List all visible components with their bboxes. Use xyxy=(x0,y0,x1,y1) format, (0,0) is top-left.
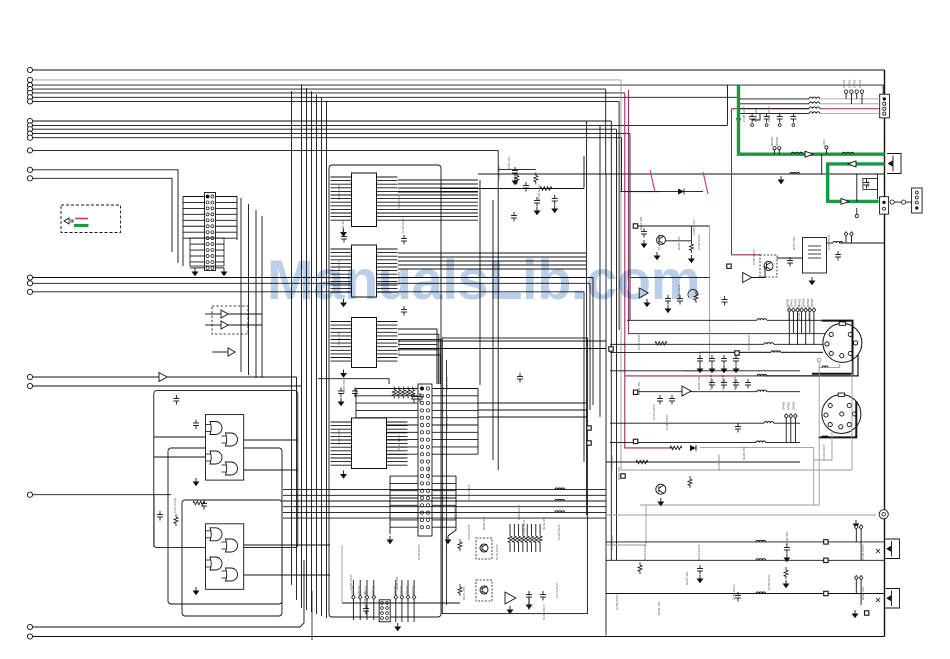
svg-text:C126 0.047: C126 0.047 xyxy=(397,434,401,450)
transistor Q4 xyxy=(480,586,488,594)
wire xyxy=(856,174,858,201)
square xyxy=(824,558,828,562)
green arrow 4 xyxy=(841,198,849,204)
capacitor C81 xyxy=(735,592,741,602)
connector CN1 xyxy=(205,193,216,271)
wire xyxy=(637,225,710,227)
res R11 xyxy=(694,291,698,303)
gray tail CN7 xyxy=(819,364,840,367)
svg-text:R227 47K: R227 47K xyxy=(445,377,449,390)
pin header J8 xyxy=(784,414,788,418)
svg-text:L004: L004 xyxy=(822,139,826,146)
op-IC IC3 xyxy=(352,318,377,368)
IC block outer box xyxy=(329,165,441,617)
svg-text:R248 47K: R248 47K xyxy=(742,447,746,460)
DIN connector CN7 xyxy=(823,323,862,362)
squares right box xyxy=(633,390,637,394)
svg-text:C104 0.047: C104 0.047 xyxy=(537,184,541,200)
wire xyxy=(33,277,593,279)
svg-text:C168 0.047: C168 0.047 xyxy=(349,574,353,590)
capacitor C30 xyxy=(173,395,179,405)
svg-text:R263 47K: R263 47K xyxy=(807,307,811,320)
dashed box U11 xyxy=(212,306,248,334)
gate G1 xyxy=(210,422,222,435)
thick route CN8 xyxy=(819,401,857,437)
gate G3 xyxy=(210,451,222,464)
bead circles xyxy=(890,200,894,204)
resistor R10 xyxy=(689,241,693,253)
wire xyxy=(244,544,330,546)
capacitor xyxy=(697,355,703,365)
wire xyxy=(882,85,884,94)
wire xyxy=(33,88,606,90)
green arrow 2 xyxy=(805,151,813,157)
wire xyxy=(154,436,205,438)
wire xyxy=(33,96,738,98)
input terminal T4 xyxy=(27,87,32,92)
wire xyxy=(827,242,833,244)
CN3 purple row segment xyxy=(820,108,880,110)
svg-text:R239 47K: R239 47K xyxy=(697,377,701,390)
vertical bus left-centre xyxy=(296,377,298,600)
capacitor xyxy=(721,379,727,389)
input terminal T21 xyxy=(27,492,32,497)
connector CN4 xyxy=(880,197,889,214)
capacitor C31 xyxy=(193,420,199,430)
green trace branch jack2 xyxy=(828,164,885,202)
wire xyxy=(33,79,621,81)
wire xyxy=(610,370,684,372)
svg-text:C170 0.047: C170 0.047 xyxy=(417,544,421,560)
CN2 pin stub wires xyxy=(356,388,418,390)
resistor R70 xyxy=(655,342,667,346)
gray wire vertical xyxy=(620,80,622,470)
ground C82 xyxy=(697,575,702,583)
wire xyxy=(606,559,885,561)
square Q1 base xyxy=(633,224,637,228)
switch S2 lever xyxy=(703,172,708,194)
resistor R72 xyxy=(636,460,648,464)
connector CN5 xyxy=(912,188,923,213)
input terminal T2 xyxy=(27,77,32,82)
svg-text:C171 0.047: C171 0.047 xyxy=(427,464,431,480)
legend box xyxy=(61,205,121,233)
diamond pair 1 xyxy=(855,525,859,529)
wire purple bus B xyxy=(629,90,831,334)
wire xyxy=(583,156,585,189)
wire xyxy=(205,313,221,315)
svg-text:R236 47K: R236 47K xyxy=(637,382,641,395)
svg-text:DPM6: DPM6 xyxy=(810,298,814,307)
inductor xyxy=(757,390,767,392)
capacitor C26 xyxy=(338,388,344,398)
pin header J9 xyxy=(844,232,848,236)
CN3 row wires xyxy=(740,98,809,100)
wire xyxy=(33,149,499,151)
CN1 lower box xyxy=(190,238,224,266)
wire xyxy=(33,560,304,627)
svg-text:C164 0.047: C164 0.047 xyxy=(822,444,826,460)
centre block box xyxy=(442,338,587,614)
wire xyxy=(244,439,298,441)
svg-text:DPM0: DPM0 xyxy=(782,401,786,410)
ground U5 xyxy=(507,606,512,614)
resistor coil CN8 tail xyxy=(822,436,828,437)
CN1 right rail xyxy=(236,197,238,241)
gray wire J5 xyxy=(341,545,343,603)
wire purple branch top xyxy=(625,191,660,193)
input terminal T19 xyxy=(27,374,32,379)
capacitor xyxy=(745,379,751,389)
wire bus xyxy=(316,95,318,615)
IC2 pin wires xyxy=(331,248,352,250)
ground arrow CN2-b xyxy=(445,536,450,544)
input terminal T1 xyxy=(27,67,32,72)
resistor R30 xyxy=(174,514,178,526)
op-amp U5 xyxy=(505,592,516,604)
wire xyxy=(492,200,494,460)
wire bundle CN2-east xyxy=(478,402,587,404)
gray output wire xyxy=(606,514,876,516)
svg-text:C123 0.047: C123 0.047 xyxy=(397,194,401,210)
wire xyxy=(766,442,800,444)
transformer T1 box xyxy=(803,238,827,274)
gate G8 xyxy=(226,568,238,581)
wire xyxy=(876,174,878,199)
op-IC IC1 xyxy=(352,173,377,227)
svg-text:R221 47K: R221 47K xyxy=(337,332,341,345)
buffer U11b xyxy=(221,321,228,329)
square J4b xyxy=(865,611,869,615)
svg-text:C134 0.047: C134 0.047 xyxy=(557,524,561,540)
resistor R81 xyxy=(784,567,788,579)
resistor R21 xyxy=(515,172,519,184)
ground C53 xyxy=(792,124,795,127)
gray wire 4 xyxy=(700,448,814,505)
ground C26 xyxy=(338,398,343,406)
capacitor C33 xyxy=(201,500,207,510)
diode D1 xyxy=(678,189,684,195)
wire xyxy=(228,324,262,326)
wire xyxy=(781,351,823,353)
svg-text:R251 47K: R251 47K xyxy=(685,572,689,585)
capacitor cluster mid xyxy=(512,167,518,177)
squares centre box edge xyxy=(587,426,591,430)
svg-text:C PA1: C PA1 xyxy=(853,79,857,88)
x mark J3 xyxy=(876,549,880,553)
svg-text:R215 47K: R215 47K xyxy=(617,467,621,480)
transistor Q1 xyxy=(657,236,666,245)
capacitor C62 xyxy=(665,295,671,305)
svg-text:C132 0.047: C132 0.047 xyxy=(522,519,526,535)
wire xyxy=(398,340,606,342)
gray wire 3 xyxy=(640,358,819,505)
input terminal T12 xyxy=(27,135,32,140)
gates region outer box xyxy=(154,391,298,548)
ground C28 xyxy=(552,205,557,213)
wire xyxy=(33,69,885,71)
legend cursor arrow xyxy=(64,218,73,224)
wire xyxy=(228,313,262,315)
CN1 left rail xyxy=(182,197,184,267)
wire xyxy=(448,476,456,536)
svg-text:DP201: DP201 xyxy=(399,585,403,595)
svg-text:R230 47K: R230 47K xyxy=(482,517,486,530)
wire bundle IC1-east xyxy=(398,179,478,181)
transistor Q2 xyxy=(656,484,666,494)
gray circle tail xyxy=(817,358,821,362)
svg-text:R212 47K: R212 47K xyxy=(453,507,457,520)
wire bundle IC2-east xyxy=(398,252,586,254)
gate cluster 1 box xyxy=(206,415,244,481)
IC2 ground xyxy=(341,299,346,307)
inductor L40 xyxy=(555,488,565,490)
inductor L42 xyxy=(555,499,565,501)
ground arrow CN1-a xyxy=(192,268,197,276)
inductor xyxy=(764,343,774,345)
wire xyxy=(342,602,460,604)
thick route CN7 xyxy=(812,321,853,374)
ground xyxy=(697,365,702,373)
ground Q1 xyxy=(654,252,659,260)
gate G6 xyxy=(226,539,238,552)
capacitor xyxy=(709,355,715,365)
input terminal T10 xyxy=(27,127,32,132)
inner block border left xyxy=(605,174,607,636)
svg-text:R269 47K: R269 47K xyxy=(395,577,399,590)
bottom bus wire xyxy=(33,636,885,638)
wire xyxy=(610,422,764,424)
inductor xyxy=(764,422,774,424)
ground xyxy=(733,365,738,373)
square U6 fb xyxy=(727,264,731,268)
input terminal T16 xyxy=(27,275,32,280)
x mark J4 xyxy=(876,598,880,602)
wire bus xyxy=(586,121,588,515)
resistor R12 xyxy=(688,476,692,488)
input terminal T3 xyxy=(27,83,32,88)
pin header J5 xyxy=(352,595,356,599)
capacitor C21 xyxy=(341,233,347,243)
svg-text:C138 0.047: C138 0.047 xyxy=(665,414,669,430)
resistor R coil xyxy=(790,172,800,174)
wire bus xyxy=(301,85,303,608)
svg-text:DP002: DP002 xyxy=(775,136,779,146)
IC4 ground xyxy=(341,471,346,479)
green trace main xyxy=(739,85,885,154)
svg-text:DP203: DP203 xyxy=(411,585,415,595)
gate G5 xyxy=(210,528,222,541)
svg-text:C122 0.047: C122 0.047 xyxy=(337,429,341,445)
svg-text:C140 0.047: C140 0.047 xyxy=(709,374,713,390)
resistor R23 xyxy=(540,187,552,191)
wire xyxy=(767,319,823,321)
op-amp U6 xyxy=(743,273,752,283)
wire xyxy=(244,469,298,471)
IC1 pin wires xyxy=(331,176,352,178)
inductor xyxy=(757,319,767,321)
wire xyxy=(610,351,771,353)
ground J6 xyxy=(395,623,400,631)
ground U7 xyxy=(644,299,649,307)
ground row xyxy=(778,176,783,184)
svg-text:R203 47K: R203 47K xyxy=(507,157,511,170)
svg-text:C101 0.047: C101 0.047 xyxy=(401,217,405,233)
ground C40 xyxy=(526,601,531,609)
legend red sample xyxy=(75,218,88,220)
wire xyxy=(634,391,757,393)
wire xyxy=(33,124,728,126)
wire xyxy=(684,370,800,372)
wire xyxy=(767,391,800,393)
svg-text:C173 0.047: C173 0.047 xyxy=(527,594,531,610)
wire xyxy=(33,84,884,86)
wire xyxy=(610,343,764,345)
svg-text:C141 0.047: C141 0.047 xyxy=(721,374,725,390)
ground arrow CN1-b xyxy=(221,268,226,276)
svg-text:C116 0.047: C116 0.047 xyxy=(697,544,701,560)
inductor xyxy=(756,441,766,443)
CN2 left rail xyxy=(355,389,357,455)
wire purple drop xyxy=(732,109,761,255)
svg-text:DPM1: DPM1 xyxy=(787,401,791,410)
svg-text:C153 0.047: C153 0.047 xyxy=(610,454,614,470)
ground arrow CN2-a xyxy=(387,536,392,544)
svg-text:DP001: DP001 xyxy=(770,136,774,146)
wire bus xyxy=(618,101,620,330)
capacitor xyxy=(733,379,739,389)
wire xyxy=(740,108,809,110)
wire xyxy=(153,495,155,547)
input terminal T17 xyxy=(27,281,32,286)
resistor coil CN7 tail xyxy=(822,366,828,368)
wire bus xyxy=(306,88,308,610)
svg-text:C102 0.047: C102 0.047 xyxy=(497,164,501,180)
svg-text:C155 0.047: C155 0.047 xyxy=(692,219,696,235)
svg-text:R266 47K: R266 47K xyxy=(657,602,661,615)
capacitor C61 xyxy=(835,251,841,261)
capacitor C53 xyxy=(790,113,796,123)
wire xyxy=(752,266,765,278)
wire xyxy=(839,242,885,244)
wire xyxy=(737,375,766,377)
connector CN3 xyxy=(880,94,890,118)
ground C52 xyxy=(778,124,781,127)
wire xyxy=(255,210,257,378)
pin circle tail xyxy=(855,214,858,217)
inductor L2 on green xyxy=(842,152,854,154)
svg-text:C128 0.047: C128 0.047 xyxy=(445,414,449,430)
wire bus xyxy=(605,89,607,174)
gate cluster 2 box xyxy=(206,524,244,590)
svg-text:C158 0.047: C158 0.047 xyxy=(827,234,831,250)
wire xyxy=(479,180,481,385)
gates region box 2 xyxy=(168,448,282,604)
resistor R31 xyxy=(193,501,205,505)
wire xyxy=(205,324,221,326)
input terminal T7 xyxy=(27,99,32,104)
input terminal T9 xyxy=(27,123,32,128)
svg-text:C152 0.047: C152 0.047 xyxy=(610,534,614,550)
capacitor C60 xyxy=(787,257,793,267)
svg-text:R209 47K: R209 47K xyxy=(785,532,789,545)
ground gates2 xyxy=(193,587,198,595)
ground T1 xyxy=(809,277,814,285)
connector CN2 xyxy=(418,384,432,536)
svg-text:C156 0.047: C156 0.047 xyxy=(752,249,756,265)
capacitor xyxy=(733,355,739,365)
ground C12 xyxy=(641,240,646,248)
wire xyxy=(606,593,885,595)
wire xyxy=(627,319,757,321)
jack J4 xyxy=(886,589,900,609)
capacitor C24 xyxy=(411,393,417,403)
svg-text:C150 0.047: C150 0.047 xyxy=(732,584,736,600)
svg-text:ManualsLib.com: ManualsLib.com xyxy=(267,248,700,311)
wire xyxy=(33,178,172,252)
wire xyxy=(606,461,640,463)
capacitor C40 xyxy=(526,591,532,601)
buffer U11c xyxy=(228,348,235,356)
gates region box 3 xyxy=(182,500,282,616)
capacitor C82 xyxy=(697,565,703,575)
wire DIN1 tap xyxy=(766,352,858,376)
IC3 pin wires xyxy=(331,321,352,323)
CN3 top pins xyxy=(844,90,847,93)
svg-text:DPM2: DPM2 xyxy=(792,401,796,410)
switch S1 lever xyxy=(650,170,655,192)
svg-text:C149 0.047: C149 0.047 xyxy=(767,574,771,590)
pin circles on green xyxy=(773,147,776,150)
capacitor C45 xyxy=(363,605,369,615)
input terminal T5 xyxy=(27,90,32,95)
wire bus xyxy=(311,91,313,612)
inductor xyxy=(756,559,766,561)
wire xyxy=(33,282,590,284)
ground R81 xyxy=(783,580,788,588)
ground cluster mid xyxy=(512,177,517,185)
svg-text:R242 47K: R242 47K xyxy=(733,377,737,390)
wire xyxy=(154,456,205,458)
dashed transistor box Q3 xyxy=(476,538,492,559)
capacitor C23 xyxy=(401,306,407,316)
inductor L44 xyxy=(555,511,565,513)
connector J6 xyxy=(379,600,390,622)
jack J1 xyxy=(887,154,901,174)
wire xyxy=(311,591,313,640)
svg-text:C159 0.047: C159 0.047 xyxy=(861,544,865,560)
wire xyxy=(497,150,499,470)
wire hook xyxy=(688,290,698,298)
gray wire 2 xyxy=(851,361,853,470)
phono jack J10 xyxy=(879,510,888,519)
gray wire 5 xyxy=(814,431,832,460)
capacitor C22 xyxy=(401,235,407,245)
wire xyxy=(606,505,646,545)
wire xyxy=(398,348,606,350)
diode D2 xyxy=(690,445,696,451)
wire xyxy=(606,541,885,543)
pin header J7 xyxy=(788,308,792,312)
wire xyxy=(33,92,625,94)
IC4 pin wires xyxy=(331,421,352,423)
ground C51 xyxy=(765,124,768,127)
wire bus xyxy=(583,292,585,462)
svg-text:C105 0.047: C105 0.047 xyxy=(742,106,746,122)
svg-text:C117 0.047: C117 0.047 xyxy=(173,497,177,513)
capacitor xyxy=(709,379,715,389)
wire xyxy=(33,170,178,263)
